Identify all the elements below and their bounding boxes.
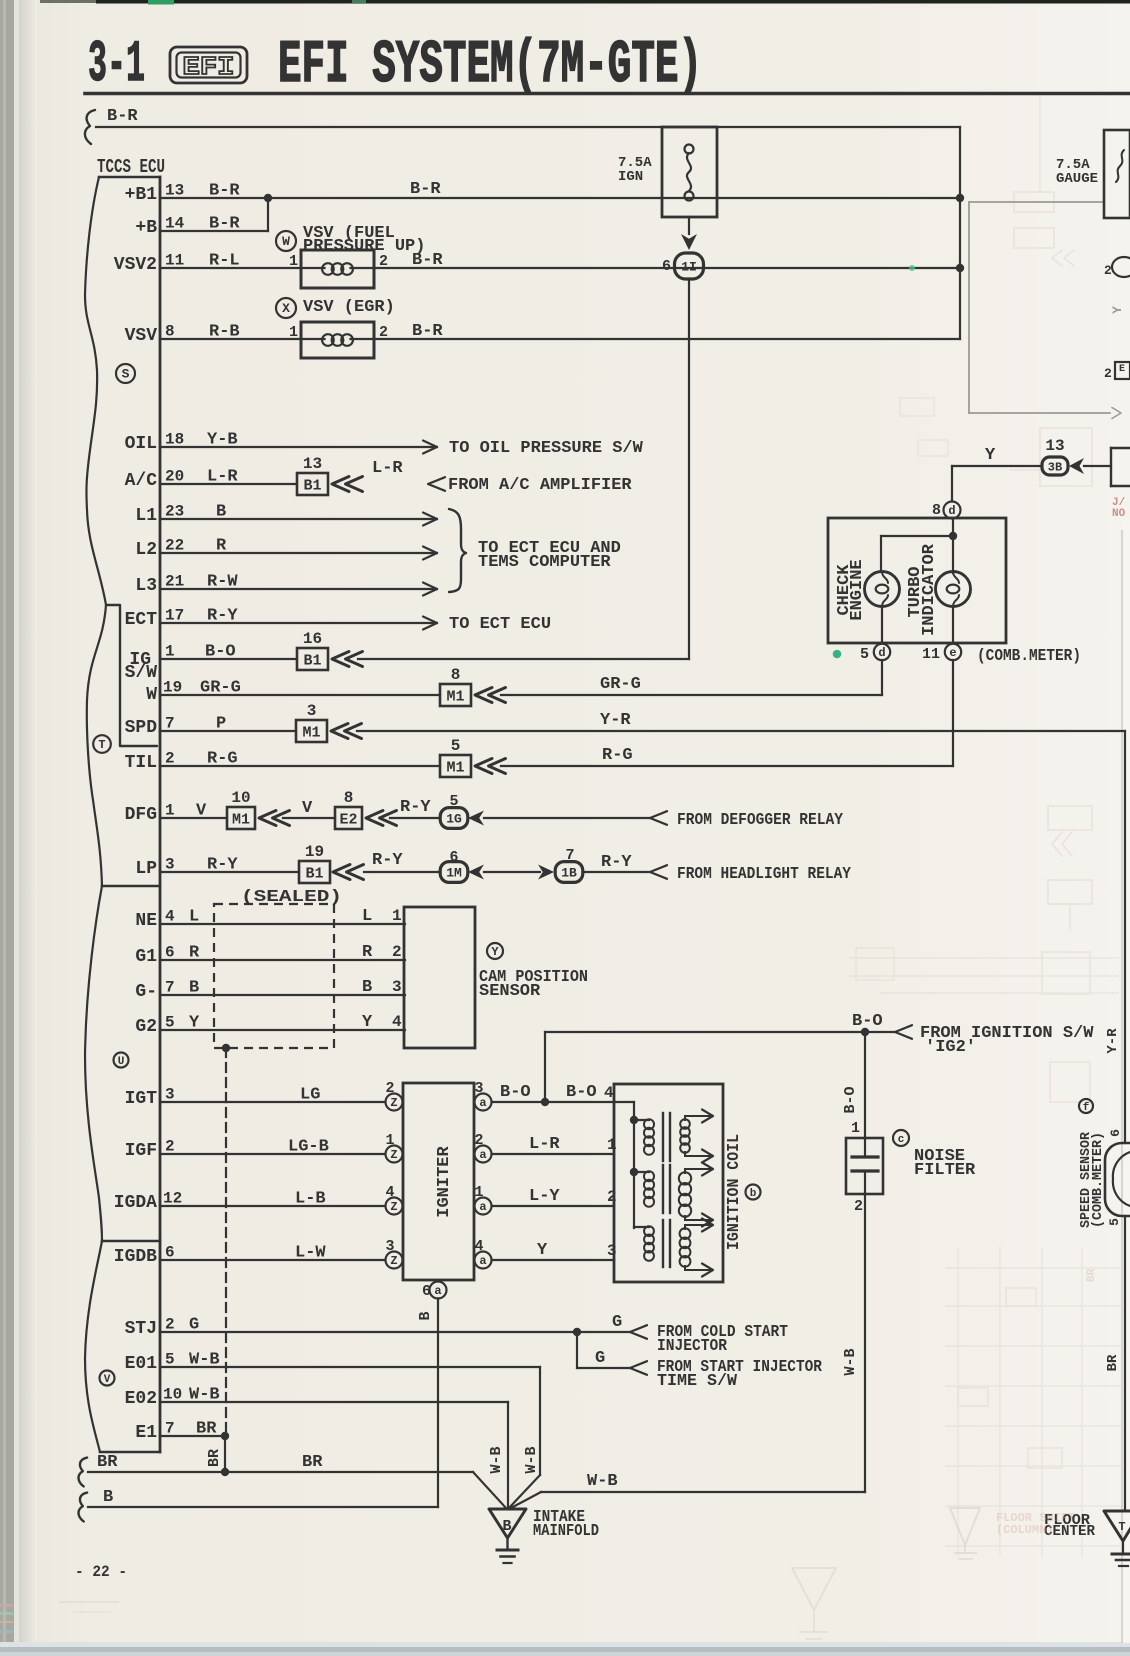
- svg-text:2: 2: [854, 1198, 863, 1215]
- svg-text:STJ: STJ: [125, 1319, 157, 1339]
- svg-text:11: 11: [165, 252, 184, 270]
- svg-text:18: 18: [165, 431, 184, 449]
- svg-text:10: 10: [231, 789, 250, 807]
- svg-text:A/C: A/C: [125, 471, 158, 491]
- svg-text:a: a: [479, 1254, 486, 1268]
- svg-text:B1: B1: [305, 866, 323, 883]
- svg-text:B1: B1: [303, 653, 321, 670]
- svg-text:+B1: +B1: [125, 185, 158, 205]
- svg-text:21: 21: [165, 573, 184, 591]
- svg-text:a: a: [479, 1148, 486, 1162]
- svg-text:5: 5: [449, 793, 458, 810]
- svg-text:ENGINE: ENGINE: [848, 559, 867, 620]
- svg-text:Y: Y: [537, 1241, 548, 1260]
- svg-text:4: 4: [385, 1184, 394, 1201]
- svg-text:19: 19: [305, 843, 324, 861]
- svg-text:5: 5: [451, 737, 461, 755]
- svg-text:TIME S/W: TIME S/W: [657, 1372, 738, 1391]
- svg-text:IGDA: IGDA: [114, 1193, 157, 1213]
- svg-text:INJECTOR: INJECTOR: [657, 1337, 728, 1356]
- svg-text:Y-R: Y-R: [600, 711, 631, 730]
- svg-text:VSV2: VSV2: [114, 255, 157, 275]
- svg-text:e: e: [949, 646, 956, 660]
- svg-text:Z: Z: [390, 1148, 397, 1162]
- svg-text:OIL: OIL: [125, 434, 157, 454]
- svg-text:1: 1: [289, 324, 298, 341]
- svg-text:+B: +B: [135, 218, 157, 238]
- svg-text:Y: Y: [362, 1013, 373, 1032]
- svg-text:8: 8: [451, 666, 461, 684]
- svg-text:IGN: IGN: [618, 169, 643, 185]
- svg-text:L-Y: L-Y: [529, 1187, 560, 1206]
- svg-text:B-O: B-O: [566, 1083, 597, 1102]
- svg-text:23: 23: [165, 503, 184, 521]
- svg-text:IGF: IGF: [125, 1141, 157, 1161]
- svg-text:a: a: [479, 1200, 486, 1214]
- svg-text:7: 7: [165, 715, 175, 733]
- svg-text:FROM HEADLIGHT RELAY: FROM HEADLIGHT RELAY: [677, 865, 852, 884]
- svg-text:19: 19: [163, 679, 182, 697]
- svg-text:8: 8: [932, 502, 941, 519]
- svg-text:S: S: [122, 367, 130, 382]
- svg-text:R-Y: R-Y: [400, 798, 431, 817]
- svg-text:B-O: B-O: [852, 1012, 883, 1031]
- svg-text:R-G: R-G: [602, 746, 633, 765]
- svg-text:W-B: W-B: [523, 1446, 540, 1473]
- svg-text:2: 2: [379, 324, 388, 341]
- svg-text:E: E: [1119, 364, 1125, 375]
- svg-text:5: 5: [165, 1351, 175, 1369]
- svg-text:5: 5: [165, 1014, 175, 1032]
- svg-text:2: 2: [165, 1138, 175, 1156]
- svg-text:c: c: [898, 1134, 905, 1146]
- svg-text:BR: BR: [1086, 1268, 1098, 1282]
- svg-text:1: 1: [165, 643, 175, 661]
- svg-text:V: V: [302, 799, 313, 818]
- svg-text:E02: E02: [125, 1389, 157, 1409]
- svg-text:1: 1: [474, 1184, 483, 1201]
- svg-text:B: B: [417, 1311, 434, 1320]
- svg-text:FROM A/C AMPLIFIER: FROM A/C AMPLIFIER: [448, 476, 632, 495]
- svg-text:(COLUMN): (COLUMN): [996, 1523, 1054, 1537]
- svg-text:2: 2: [165, 750, 175, 768]
- svg-text:d: d: [878, 646, 885, 660]
- svg-text:R-Y: R-Y: [601, 853, 632, 872]
- svg-text:2: 2: [474, 1132, 483, 1149]
- svg-text:GAUGE: GAUGE: [1056, 171, 1098, 187]
- svg-text:X: X: [282, 301, 290, 316]
- svg-text:14: 14: [165, 215, 185, 233]
- svg-text:PRESSURE UP): PRESSURE UP): [303, 237, 425, 256]
- svg-text:5: 5: [860, 646, 869, 663]
- svg-text:(COMB.METER): (COMB.METER): [1090, 1132, 1106, 1228]
- svg-text:4: 4: [604, 1084, 614, 1102]
- svg-text:1B: 1B: [561, 866, 577, 881]
- svg-text:17: 17: [165, 607, 184, 625]
- svg-text:L1: L1: [135, 506, 157, 526]
- svg-text:M1: M1: [232, 812, 250, 829]
- svg-text:4: 4: [392, 1013, 402, 1031]
- svg-text:TO OIL PRESSURE S/W: TO OIL PRESSURE S/W: [449, 439, 644, 458]
- svg-text:T: T: [98, 738, 105, 752]
- svg-text:1M: 1M: [446, 866, 462, 881]
- svg-text:INDICATOR: INDICATOR: [920, 543, 939, 636]
- svg-text:1: 1: [165, 802, 175, 820]
- svg-text:E01: E01: [125, 1354, 158, 1374]
- svg-text:EFI SYSTEM(7M-GTE): EFI SYSTEM(7M-GTE): [278, 32, 702, 100]
- svg-text:8: 8: [344, 789, 354, 807]
- svg-text:M1: M1: [446, 689, 464, 706]
- svg-text:ECT: ECT: [125, 610, 158, 630]
- svg-text:4: 4: [474, 1238, 483, 1255]
- svg-text:R-Y: R-Y: [372, 851, 403, 870]
- svg-text:Z: Z: [390, 1096, 397, 1110]
- svg-text:10: 10: [163, 1386, 182, 1404]
- svg-text:L2: L2: [135, 540, 157, 560]
- svg-text:L-R: L-R: [529, 1135, 560, 1154]
- svg-text:G2: G2: [135, 1017, 157, 1037]
- svg-text:W-B: W-B: [842, 1348, 859, 1375]
- svg-text:Z: Z: [390, 1254, 397, 1268]
- svg-text:B-R: B-R: [107, 107, 138, 126]
- svg-text:Y: Y: [1110, 306, 1125, 314]
- svg-text:20: 20: [165, 468, 184, 486]
- svg-text:1I: 1I: [681, 260, 697, 275]
- svg-text:6: 6: [165, 944, 175, 962]
- svg-text:f: f: [1083, 1102, 1090, 1114]
- svg-text:6: 6: [449, 849, 458, 866]
- svg-text:6: 6: [1108, 1129, 1123, 1137]
- svg-text:B-O: B-O: [842, 1086, 859, 1113]
- svg-text:G: G: [612, 1313, 622, 1332]
- svg-text:13: 13: [1045, 437, 1064, 455]
- svg-text:L: L: [362, 907, 372, 926]
- svg-text:G-: G-: [135, 982, 157, 1002]
- svg-text:Y-R: Y-R: [1105, 1028, 1121, 1054]
- svg-text:1: 1: [385, 1132, 394, 1149]
- svg-text:'IG2': 'IG2': [925, 1038, 976, 1057]
- svg-text:B-R: B-R: [412, 322, 443, 341]
- svg-text:3: 3: [385, 1238, 394, 1255]
- svg-text:3: 3: [165, 1086, 175, 1104]
- svg-text:T: T: [1118, 1520, 1125, 1534]
- svg-text:TCCS ECU: TCCS ECU: [97, 156, 165, 178]
- svg-text:4: 4: [165, 908, 175, 926]
- svg-text:M1: M1: [302, 725, 320, 742]
- svg-text:NO: NO: [1112, 508, 1126, 520]
- svg-text:1: 1: [392, 907, 402, 925]
- svg-text:6: 6: [422, 1283, 431, 1300]
- svg-text:SENSOR: SENSOR: [479, 982, 541, 1001]
- svg-text:DFG: DFG: [125, 805, 157, 825]
- svg-text:TO ECT ECU: TO ECT ECU: [449, 615, 551, 634]
- svg-text:11: 11: [922, 646, 940, 663]
- svg-text:BR: BR: [302, 1453, 323, 1472]
- svg-text:SPD: SPD: [125, 718, 158, 738]
- svg-text:G1: G1: [135, 947, 157, 967]
- svg-text:8: 8: [165, 323, 175, 341]
- svg-text:W-B: W-B: [488, 1446, 505, 1473]
- svg-text:1: 1: [851, 1120, 860, 1137]
- svg-text:VSV: VSV: [125, 326, 158, 346]
- svg-text:Y: Y: [491, 945, 499, 959]
- svg-text:- 22 -: - 22 -: [75, 1563, 127, 1581]
- svg-text:BR: BR: [206, 1449, 223, 1467]
- svg-text:FILTER: FILTER: [914, 1161, 976, 1180]
- svg-text:3: 3: [307, 702, 317, 720]
- svg-text:MAINFOLD: MAINFOLD: [533, 1522, 599, 1541]
- svg-text:IGNITION COIL: IGNITION COIL: [725, 1134, 744, 1250]
- svg-text:d: d: [948, 504, 955, 518]
- svg-text:B1: B1: [303, 478, 321, 495]
- svg-text:Y: Y: [985, 446, 996, 465]
- svg-text:12: 12: [163, 1190, 182, 1208]
- svg-text:1G: 1G: [446, 812, 462, 827]
- svg-text:NE: NE: [135, 911, 157, 931]
- svg-text:IGT: IGT: [125, 1089, 158, 1109]
- svg-text:TIL: TIL: [125, 753, 157, 773]
- svg-text:3-1: 3-1: [88, 33, 145, 98]
- svg-text:B: B: [103, 1488, 113, 1507]
- svg-text:3B: 3B: [1048, 461, 1062, 475]
- svg-text:V: V: [104, 1374, 111, 1386]
- svg-text:M1: M1: [446, 760, 464, 777]
- svg-text:W: W: [146, 685, 157, 705]
- svg-text:2: 2: [385, 1080, 394, 1097]
- svg-text:B-R: B-R: [410, 180, 441, 199]
- svg-text:2: 2: [165, 1316, 175, 1334]
- svg-text:L3: L3: [135, 576, 157, 596]
- svg-text:2: 2: [392, 943, 402, 961]
- svg-text:7: 7: [565, 847, 574, 864]
- svg-text:E2: E2: [339, 812, 357, 829]
- svg-text:2: 2: [1104, 366, 1112, 381]
- svg-text:EFI: EFI: [183, 52, 235, 82]
- svg-text:B-O: B-O: [500, 1083, 531, 1102]
- svg-text:13: 13: [303, 455, 322, 473]
- svg-text:7: 7: [165, 979, 175, 997]
- svg-text:G: G: [595, 1349, 605, 1368]
- svg-text:W: W: [282, 234, 290, 249]
- svg-text:3: 3: [165, 856, 175, 874]
- svg-text:S/W: S/W: [125, 663, 158, 683]
- svg-text:B: B: [502, 1518, 511, 1535]
- svg-text:(COMB.METER): (COMB.METER): [977, 647, 1081, 666]
- svg-text:a: a: [434, 1284, 441, 1298]
- svg-text:IGDB: IGDB: [114, 1247, 157, 1267]
- svg-text:GR-G: GR-G: [600, 675, 641, 694]
- svg-text:a: a: [479, 1096, 486, 1110]
- svg-text:W-B: W-B: [587, 1472, 618, 1491]
- svg-text:13: 13: [165, 182, 184, 200]
- svg-text:6: 6: [165, 1244, 175, 1262]
- svg-text:6: 6: [662, 258, 671, 275]
- svg-text:5: 5: [1107, 1218, 1122, 1226]
- svg-text:IGNITER: IGNITER: [435, 1146, 454, 1218]
- svg-text:BR: BR: [97, 1453, 118, 1472]
- svg-text:Z: Z: [390, 1200, 397, 1214]
- svg-text:TEMS COMPUTER: TEMS COMPUTER: [478, 553, 611, 572]
- svg-text:1: 1: [289, 253, 298, 270]
- svg-text:R: R: [362, 943, 373, 962]
- svg-text:B: B: [362, 978, 372, 997]
- svg-text:7: 7: [165, 1420, 175, 1438]
- svg-text:b: b: [750, 1188, 757, 1200]
- svg-text:22: 22: [165, 537, 184, 555]
- svg-text:16: 16: [303, 630, 322, 648]
- svg-text:E1: E1: [135, 1423, 157, 1443]
- svg-text:LP: LP: [135, 859, 157, 879]
- svg-text:BR: BR: [1105, 1354, 1121, 1371]
- svg-text:FROM DEFOGGER RELAY: FROM DEFOGGER RELAY: [677, 811, 844, 830]
- svg-text:U: U: [118, 1056, 125, 1068]
- svg-text:2: 2: [1104, 263, 1112, 278]
- svg-text:3: 3: [474, 1080, 483, 1097]
- svg-text:3: 3: [392, 978, 402, 996]
- svg-text:L-R: L-R: [372, 459, 403, 478]
- svg-text:VSV (EGR): VSV (EGR): [303, 298, 395, 317]
